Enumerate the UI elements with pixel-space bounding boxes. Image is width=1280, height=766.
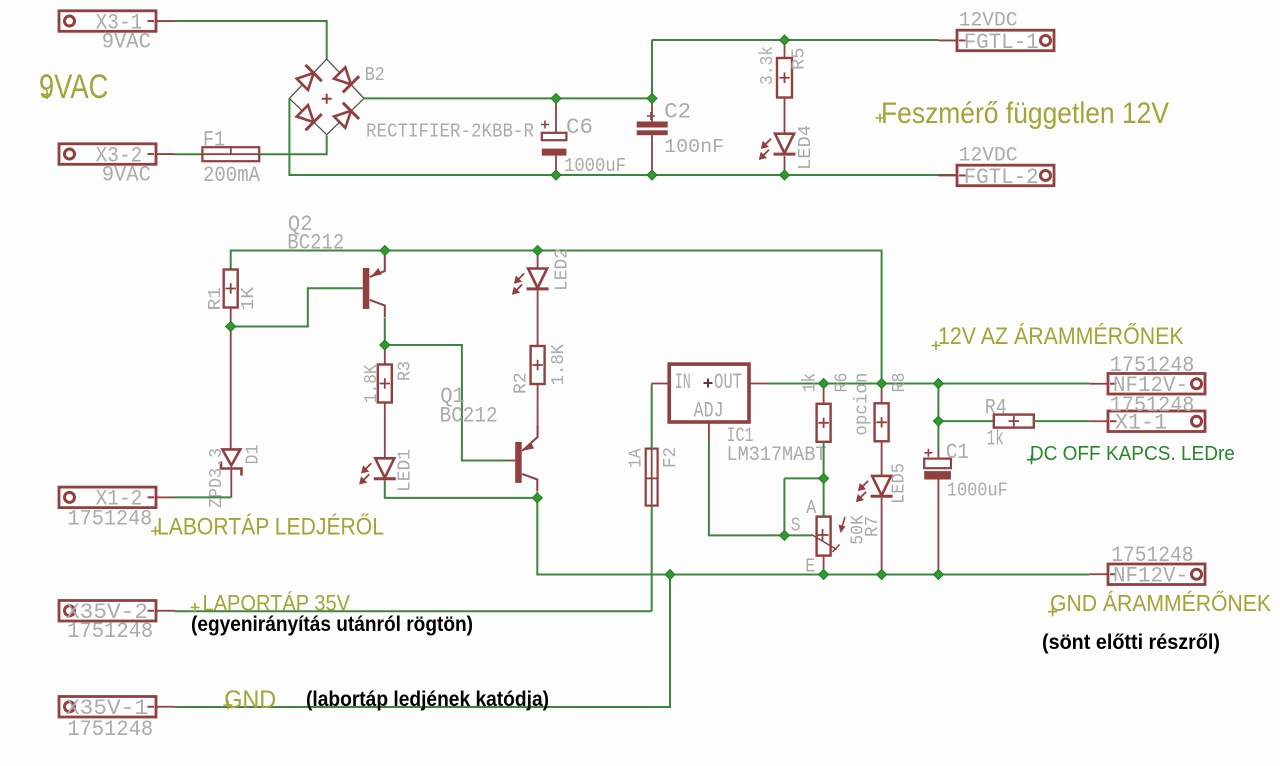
wire emitter rail [231, 251, 882, 384]
LED LED2 [513, 269, 549, 295]
resistor R2 [531, 346, 545, 384]
svg-text:F1: F1 [203, 128, 225, 153]
svg-text:12VDC: 12VDC [959, 145, 1018, 168]
potentiometer R7 [812, 517, 846, 556]
svg-text:R3: R3 [396, 361, 416, 381]
lead R2 bottom [537, 384, 539, 435]
connector FGTL-1 [938, 30, 1054, 55]
resistor R8 [875, 403, 889, 441]
junction R6 top [819, 379, 829, 389]
svg-text:R7: R7 [863, 516, 883, 537]
junction wiper S [779, 530, 789, 540]
fuse F1 [202, 147, 259, 161]
connector X1-2 [59, 487, 175, 512]
wire riser to 12VDC rail [651, 40, 653, 99]
pin OUT stub [749, 383, 768, 385]
svg-text:1751248: 1751248 [67, 619, 153, 644]
junction Q1 collector/LED1 [532, 493, 542, 503]
svg-text:RECTIFIER-2KBB-R: RECTIFIER-2KBB-R [366, 121, 534, 143]
junction C6 bottom [551, 170, 561, 180]
junction R1/D1 [226, 322, 236, 332]
svg-text:ADJ: ADJ [694, 398, 724, 423]
pin IN stub [652, 383, 670, 385]
svg-text:200mA: 200mA [203, 163, 261, 188]
bridge rectifier B2 [289, 59, 364, 135]
lead LED2-R2 [537, 291, 539, 347]
wire ADJ to wiper [709, 441, 785, 536]
svg-text:ZPD3.3: ZPD3.3 [207, 448, 227, 508]
junction LED5 bottom [877, 570, 887, 580]
svg-text:IN: IN [675, 370, 691, 395]
svg-text:1A: 1A [626, 448, 646, 468]
lead R8 top [881, 384, 883, 404]
wire 35V rail [175, 610, 652, 612]
wire OUT rail [768, 383, 1090, 385]
svg-text:C6: C6 [566, 115, 593, 140]
svg-text:R4: R4 [985, 396, 1007, 421]
junction C2 top [647, 93, 657, 103]
junction R6/R7 [819, 473, 829, 483]
connector X1-1 [1089, 411, 1205, 436]
wire bridge + to C2 [364, 97, 652, 99]
svg-text:1K: 1K [239, 287, 259, 311]
svg-text:LED1: LED1 [396, 449, 416, 492]
svg-text:1k: 1k [987, 427, 1004, 452]
junction LED2 top [533, 246, 543, 256]
svg-text:Feszmérő független 12V: Feszmérő független 12V [881, 97, 1169, 130]
wiper lead [784, 534, 812, 536]
wire to Q1 base [385, 345, 507, 461]
junction LED4 bottom [780, 170, 790, 180]
wire X3-1 to bridge AC1 [175, 21, 327, 59]
svg-text:GND: GND [224, 686, 276, 714]
svg-text:C2: C2 [664, 99, 691, 124]
svg-text:100nF: 100nF [664, 136, 724, 158]
svg-text:12VDC: 12VDC [959, 10, 1018, 33]
svg-text:9VAC: 9VAC [102, 30, 151, 55]
junction GND riser [665, 570, 675, 580]
wire F2 to 35V [651, 506, 653, 612]
wire to R4 [938, 420, 994, 422]
svg-text:1.8K: 1.8K [362, 364, 382, 403]
resistor R3 [378, 365, 392, 403]
svg-text:(egyenirányítás utánról rögtön: (egyenirányítás utánról rögtön) [191, 613, 473, 636]
junction R7 bottom [819, 570, 829, 580]
wire IN riser [651, 384, 653, 449]
wire LED1 to Q1 collector [385, 481, 538, 498]
connector X35V-2 [59, 600, 175, 625]
svg-text:LM317MABT: LM317MABT [727, 444, 827, 467]
svg-text:BC212: BC212 [440, 404, 498, 429]
svg-text:9VAC: 9VAC [39, 68, 108, 106]
junction R5 top [780, 35, 790, 45]
capacitor C2 [637, 98, 668, 175]
junction Q2 collector/R3 [380, 340, 390, 350]
svg-text:3.3k: 3.3k [758, 46, 778, 85]
pin ADJ stub [708, 422, 710, 441]
svg-text:R8: R8 [890, 373, 910, 393]
svg-text:1000uF: 1000uF [947, 479, 1008, 501]
zener diode D1 [221, 327, 242, 498]
wire F1 to bridge AC2 [259, 136, 327, 155]
svg-text:LABORTÁP LEDJÉRŐL: LABORTÁP LEDJÉRŐL [157, 514, 384, 541]
svg-text:F2: F2 [661, 447, 681, 468]
lead LED5 bottom [881, 498, 883, 575]
wire 12VDC top rail [652, 39, 938, 41]
svg-text:R5: R5 [790, 48, 810, 71]
LED LED5 [857, 476, 893, 502]
connector NF12V- lower [1089, 564, 1205, 589]
svg-text:1000uF: 1000uF [564, 155, 626, 177]
svg-text:DC OFF KAPCS. LEDre: DC OFF KAPCS. LEDre [1030, 443, 1235, 465]
svg-text:1.8K: 1.8K [549, 344, 569, 385]
svg-text:12V AZ ÁRAMMÉRŐNEK: 12V AZ ÁRAMMÉRŐNEK [938, 323, 1184, 350]
capacitor C1 [924, 449, 951, 575]
lead R1 bottom [230, 308, 232, 327]
wire wiper column [783, 478, 785, 535]
wire R6/R7 node to wiper column [784, 477, 823, 479]
wire GND riser [175, 575, 671, 708]
svg-text:FGTL-1: FGTL-1 [964, 30, 1039, 55]
transistor Q2 [363, 251, 385, 318]
svg-text:1751248: 1751248 [68, 507, 153, 532]
svg-text:R2: R2 [512, 372, 532, 394]
svg-text:B2: B2 [365, 64, 385, 86]
resistor R6 [817, 404, 831, 442]
svg-text:S: S [791, 515, 801, 537]
svg-text:LED4: LED4 [796, 125, 816, 170]
lead R3 top [384, 345, 386, 365]
svg-text:R6: R6 [833, 373, 853, 393]
lead LED2 top [537, 251, 539, 269]
fuse F2 [646, 449, 658, 506]
lead R3 bottom [384, 403, 386, 459]
capacitor C6 [541, 98, 566, 175]
junction C1 top [933, 379, 943, 389]
connector X35V-1 [59, 696, 175, 721]
svg-text:opcion: opcion [853, 373, 873, 436]
LED LED1 [360, 458, 396, 484]
lead R8 bottom [881, 441, 883, 476]
svg-text:D1: D1 [244, 445, 264, 465]
svg-text:1751248: 1751248 [1111, 543, 1193, 568]
svg-text:1k: 1k [800, 373, 820, 393]
junction bridge+/C6 [551, 93, 561, 103]
wire Q2 collector down [384, 318, 386, 345]
lead R6 top [823, 384, 825, 404]
svg-text:LED5: LED5 [890, 463, 910, 504]
svg-text:9VAC: 9VAC [102, 163, 151, 188]
junction R8 top [877, 379, 887, 389]
svg-text:A: A [806, 497, 817, 519]
wire R1 to Q2 base [231, 288, 363, 326]
connector FGTL-2 [938, 165, 1054, 190]
svg-text:C1: C1 [946, 440, 969, 465]
svg-text:R1: R1 [206, 287, 226, 310]
svg-text:OUT: OUT [714, 370, 742, 395]
junction R4 node [933, 416, 943, 426]
lead Q1 base [507, 460, 515, 462]
junction C1 bottom [933, 570, 943, 580]
wire X1-2 to D1 [175, 496, 232, 498]
svg-text:LED2: LED2 [553, 248, 573, 291]
svg-text:1751248: 1751248 [1110, 353, 1195, 378]
svg-text:(labortáp ledjének katódja): (labortáp ledjének katódja) [306, 688, 549, 711]
connector X3-1 [59, 10, 175, 35]
svg-text:LAPORTÁP 35V: LAPORTÁP 35V [203, 591, 351, 616]
connector NF12V- upper [1089, 373, 1205, 398]
wire R4 to X1-1 [1034, 420, 1090, 422]
svg-text:1751248: 1751248 [67, 717, 153, 742]
LED LED4 [760, 134, 796, 160]
resistor R1 [224, 270, 238, 308]
svg-text:(sönt előtti részről): (sönt előtti részről) [1042, 631, 1220, 654]
resistor R4 [994, 415, 1034, 428]
wire Q1 collector to node [536, 492, 538, 498]
svg-text:E: E [805, 555, 815, 577]
junction C2 bottom [647, 170, 657, 180]
lead R7 bottom [823, 556, 825, 575]
transistor Q1 [515, 425, 537, 492]
voltage regulator IC1 [669, 364, 749, 423]
wire bridge - ground rail [289, 98, 955, 175]
svg-text:BC212: BC212 [287, 231, 344, 256]
wire OUT to C1 [937, 384, 939, 451]
junction Q2 emitter [380, 246, 390, 256]
wire X3-2 to F1 [175, 153, 203, 155]
wire R6 to R7 [823, 442, 825, 517]
wire bottom rail [537, 498, 1089, 575]
svg-text:FGTL-2: FGTL-2 [964, 165, 1039, 190]
svg-text:GND ÁRAMMÉRŐNEK: GND ÁRAMMÉRŐNEK [1050, 590, 1272, 616]
lead LED4 bottom [784, 156, 786, 175]
svg-text:1751248: 1751248 [1110, 393, 1195, 418]
resistor R5 [777, 58, 792, 98]
connector X3-2 [59, 143, 175, 168]
lead R5 top [784, 40, 786, 134]
